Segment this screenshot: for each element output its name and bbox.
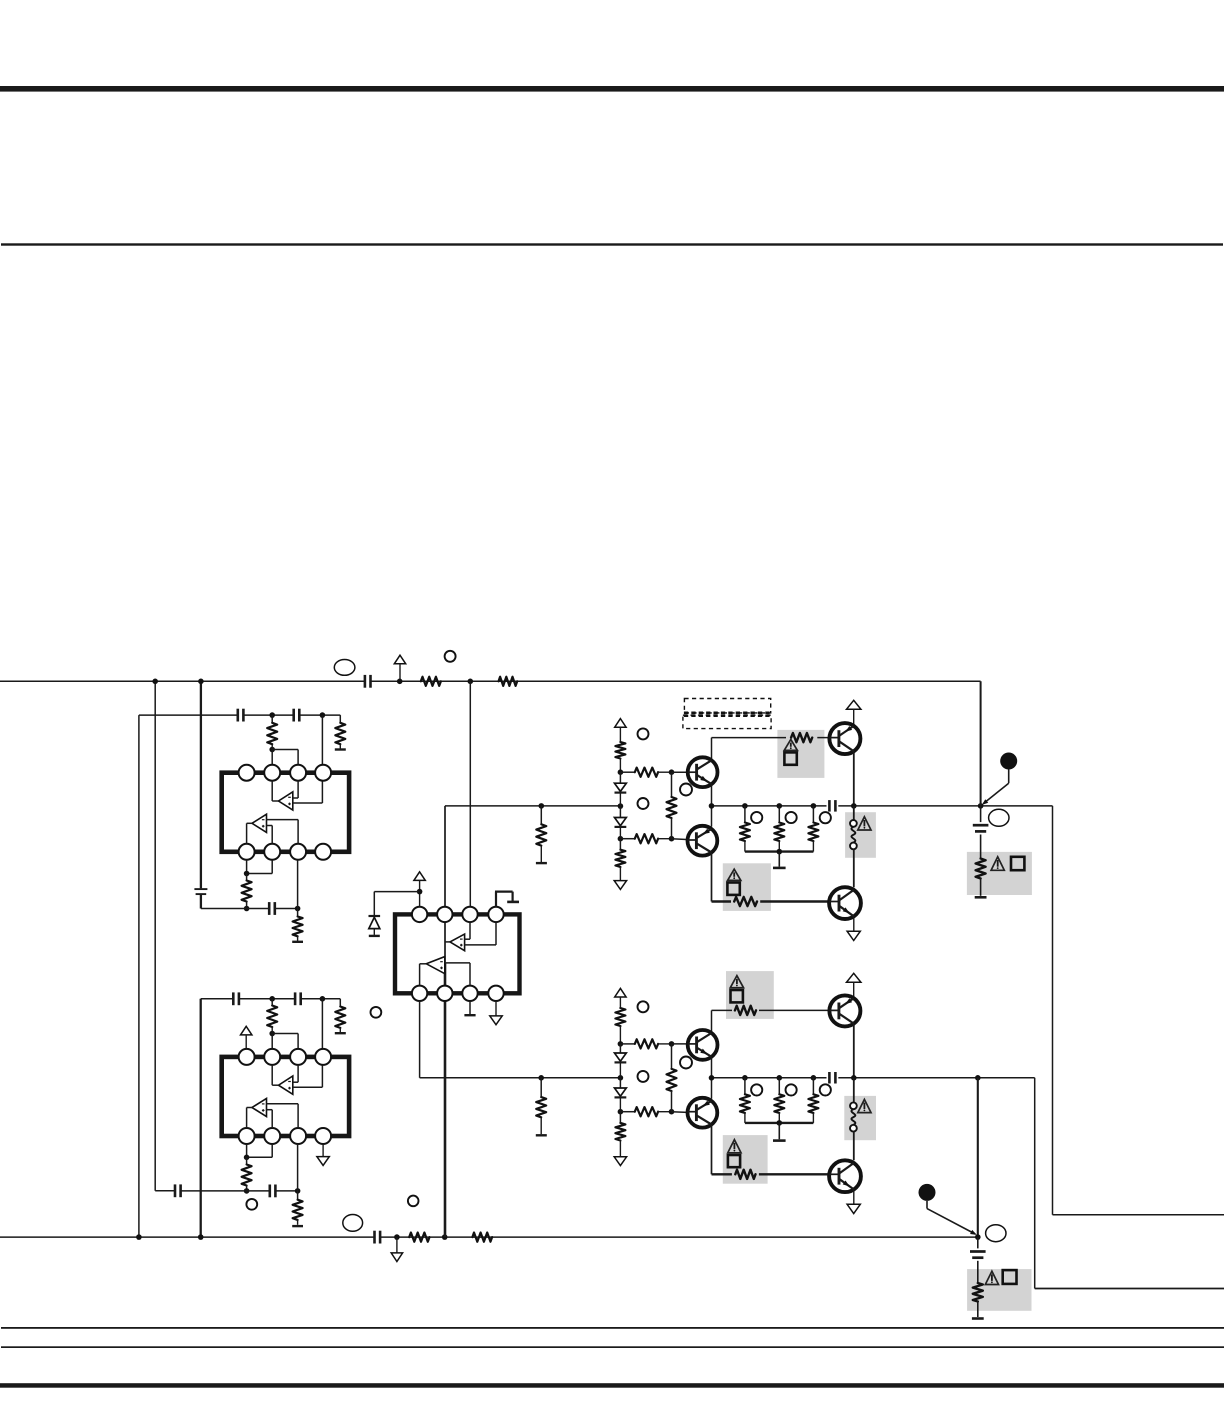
- speaker dot (bottom ch): [919, 1184, 936, 1201]
- ground arrow (bias, bottom ch): [614, 1141, 626, 1166]
- node dot T3: [618, 827, 624, 841]
- fuse F2 contact b: [850, 1125, 857, 1132]
- transistor Q8 (power lower): [829, 1160, 861, 1192]
- resistor R5 (IC1 rail drop): [267, 715, 277, 744]
- terminal bar R10: [335, 1032, 346, 1034]
- wire IC1-c to pin3: [272, 750, 298, 765]
- node dot V8: [777, 1075, 783, 1081]
- node dot V6: [709, 1075, 715, 1081]
- wire IC2-c to pin3: [272, 1034, 298, 1049]
- wire U1 pin1b-pin2b link: [247, 860, 273, 874]
- wire U2 pin1b-pin2b link: [247, 1144, 273, 1157]
- highlight box fuse F2 (bottom channel): [844, 1096, 876, 1140]
- test point circle TP15: [786, 1084, 797, 1095]
- wire U3 pin3b stub: [469, 1001, 471, 1014]
- wire feed to U3 pin3 (x=470): [469, 681, 471, 906]
- node dot IC1-b: [320, 712, 326, 718]
- power symbol +B (top): [394, 655, 405, 681]
- square mark (output top): [1011, 857, 1024, 870]
- node dot T12: [978, 803, 984, 809]
- page top rule (thick): [0, 86, 1224, 92]
- test point circle TP2: [408, 1196, 419, 1207]
- resistor R32 (Q8 base, in box): [735, 1170, 755, 1179]
- resistor R1 (top rail): [421, 677, 441, 686]
- ground stub (bottom rail): [391, 1237, 402, 1261]
- diode D5: [615, 1088, 627, 1097]
- IC U3 pin circles: [412, 907, 504, 1001]
- square mark (output bottom): [1003, 1270, 1017, 1284]
- wire fuse to Q4: [853, 849, 855, 887]
- highlight box fuse F1 (top channel): [845, 812, 876, 858]
- speaker dot (top ch): [1000, 753, 1017, 770]
- warning mark (output top): [991, 857, 1004, 871]
- resistor R26 (bias top): [615, 1008, 625, 1044]
- capacitor C5 (IC1 rail): [294, 709, 300, 722]
- highlight box output R (top channel): [967, 852, 1032, 895]
- wire U3b tip to pin1b: [420, 964, 427, 986]
- wire T5 to Q2 base: [672, 839, 697, 840]
- wire node to fuse (bottom): [853, 1078, 855, 1103]
- highlight box R-base lower (bottom channel): [723, 1135, 768, 1184]
- wire center bus (x=445): [444, 806, 446, 1237]
- node dot B1: [394, 1234, 400, 1240]
- dashed connector outline A: [684, 699, 770, 713]
- transistor Q3 (power upper): [829, 723, 860, 754]
- resistor R33 (bank): [740, 1078, 750, 1123]
- terminal bar D1: [369, 935, 380, 937]
- node dot T9: [811, 803, 817, 809]
- wire U1a tip to pin2: [272, 780, 278, 801]
- resistor R19 (Q3 base, in box): [791, 733, 812, 742]
- resistor R13 (mid): [536, 806, 546, 862]
- wire fuse to Q8: [853, 1132, 855, 1161]
- op-amp U2b: [252, 1098, 267, 1116]
- capacitor C3 (electrolytic on bus 3): [194, 889, 207, 894]
- highlight box output R (bottom channel): [967, 1269, 1031, 1311]
- resistor R14 (bias top): [615, 742, 625, 772]
- wire U1b base link to pin2b: [267, 826, 273, 844]
- terminal bar R6: [335, 748, 346, 750]
- wire U3a tip: [445, 941, 450, 943]
- wire U2a in- from pin3: [293, 1065, 298, 1083]
- wire Q7 emitter to node: [853, 1024, 855, 1078]
- node dot U2-d: [244, 1155, 250, 1161]
- node dot U5b: [669, 1109, 675, 1115]
- highlight box R-base upper (top channel): [777, 730, 824, 778]
- dashed connector outline B: [683, 715, 771, 728]
- node dot B2: [442, 1234, 448, 1240]
- wire U1a in- from pin3: [293, 780, 298, 798]
- diode D2: [615, 783, 627, 792]
- node dot U4b: [669, 1041, 675, 1047]
- test point circle TP11: [638, 1001, 649, 1012]
- resistor R3 (bottom rail): [409, 1233, 429, 1242]
- wire Q3 emitter to node: [853, 751, 855, 806]
- test point circle TP8: [751, 812, 762, 823]
- ground arrow (U2 pin4b): [317, 1144, 329, 1165]
- wire IC1 pin4 feed: [321, 715, 323, 803]
- node dot T2: [618, 793, 624, 809]
- wire IC1 bottom rail: [201, 908, 298, 910]
- wire U1b tip to pin1b: [247, 823, 252, 844]
- wire IC2 pin4 feed: [321, 999, 323, 1087]
- resistor R17 (base row 2): [620, 834, 671, 843]
- ground stub (bank, bottom ch): [773, 1123, 786, 1141]
- op-amp IC U2 body: [222, 1057, 349, 1136]
- label ellipse (output bottom): [986, 1225, 1006, 1242]
- wire top input rail: [0, 680, 981, 682]
- terminal bar output bottom: [972, 1317, 984, 1320]
- transistor Q4 (power lower): [829, 887, 861, 919]
- wire left bus 2 (x=155): [154, 681, 156, 1191]
- wire Q5-Q6 link: [711, 1057, 713, 1099]
- capacitor C14 (IC2 bottom rail): [270, 1185, 276, 1198]
- op-amp U3a: [450, 934, 465, 951]
- wire output drop (bottom ch): [977, 1078, 979, 1237]
- capacitor C12 (mid rail): [829, 1072, 835, 1084]
- power symbol +B (bottom ch): [615, 988, 626, 1008]
- node dot bus3-top: [198, 679, 204, 685]
- speaker pointer (bottom ch): [927, 1201, 977, 1235]
- node dot IC1-c: [269, 744, 275, 752]
- test point circle TP10: [820, 812, 831, 823]
- page footer rule 2: [1, 1346, 1224, 1348]
- fuse F1 element: [851, 827, 855, 843]
- wire bus 3 to IC1 rail: [200, 894, 202, 908]
- capacitor C1 (input L): [365, 675, 371, 688]
- capacitor C6 (IC1 bottom rail): [269, 902, 275, 915]
- resistor R30 (inter-base): [667, 1044, 677, 1112]
- node dot U3-a: [417, 889, 423, 895]
- dashed connector heavy row: [684, 713, 771, 716]
- resistor R36 (output): [973, 1261, 983, 1317]
- fuse F1 contact a: [850, 820, 857, 827]
- wire U3a in- from pin3: [465, 922, 470, 939]
- resistor R24 (output): [976, 859, 986, 896]
- test point circle TP7: [680, 784, 692, 796]
- wire Q1-Q2 link: [711, 784, 713, 826]
- node dot A1: [397, 679, 403, 685]
- wire pin3b down: [297, 860, 299, 909]
- node dot IC2-c: [269, 1027, 275, 1036]
- node dot U2-e: [244, 1188, 250, 1194]
- resistor R12 (IC2 bottom): [293, 1191, 303, 1225]
- wire U2a out: [293, 1086, 323, 1088]
- node dot V9: [811, 1075, 817, 1081]
- wire left bus 3 lower: [200, 999, 202, 1237]
- wire U3 zener branch: [374, 892, 419, 916]
- capacitor C8 (IC2 rail): [295, 992, 301, 1005]
- resistor R28 (base row 1): [620, 1039, 671, 1048]
- test point circle TP6: [638, 798, 649, 809]
- node dot T11: [851, 803, 857, 809]
- wire IC2 bottom rail: [155, 1190, 297, 1192]
- terminal bar output top: [975, 896, 987, 899]
- wire IC1-c to pin2: [271, 750, 273, 765]
- test point circle TP3: [246, 1199, 257, 1210]
- resistor R35 (bank): [808, 1078, 818, 1123]
- label ellipse (output top): [989, 809, 1009, 826]
- capacitor C10 (mid rail): [829, 800, 835, 812]
- warning mark (box1): [784, 739, 797, 750]
- resistor R15 (bias bottom): [615, 839, 625, 867]
- square mark (box1): [784, 752, 796, 764]
- test point circle TP5: [638, 728, 649, 739]
- test point circle TP14: [751, 1084, 762, 1095]
- node dot M2: [538, 1075, 544, 1081]
- wire T1-T2: [619, 772, 621, 783]
- wire U1a out: [293, 802, 323, 804]
- resistor R16 (base row 1): [620, 768, 671, 777]
- node dot T5: [669, 836, 675, 842]
- fuse F1 contact b: [850, 843, 857, 850]
- wire output right (top ch): [1053, 806, 1224, 1215]
- node dot IC2-b: [320, 996, 326, 1002]
- node dot bus3-bottom: [198, 1234, 204, 1240]
- transistor Q7 (power upper): [829, 995, 860, 1026]
- wire output right (bottom ch): [1035, 1078, 1224, 1289]
- power symbol +B (top ch): [615, 719, 626, 742]
- resistor R9 (IC2 rail drop): [267, 999, 277, 1027]
- ground stub (bank): [773, 852, 786, 868]
- wire mid rail L (top ch): [445, 805, 620, 807]
- terminal bar R8: [292, 941, 303, 943]
- node dot T7: [742, 803, 748, 809]
- warning mark (fuse F2): [858, 1099, 871, 1112]
- node dot bus2-top: [152, 679, 158, 685]
- wire U2b out to pin3b: [267, 1104, 299, 1128]
- wire T4 to Q1 base: [672, 771, 697, 773]
- wire U3 pin4 stub: [495, 892, 513, 907]
- wire left bus 1 (x=139): [138, 715, 140, 1237]
- square mark (box4): [728, 1155, 740, 1167]
- node dot T1: [618, 769, 624, 775]
- capacitor C4 (IC1 rail): [238, 709, 244, 722]
- wire mid rail R (bottom ch): [712, 1077, 1035, 1079]
- op-amp U3b: [426, 957, 445, 974]
- terminal bar R13: [536, 862, 547, 864]
- speaker pointer (top ch): [982, 770, 1009, 806]
- wire Q2 base wire thick: [712, 900, 829, 902]
- transistor Q1 (driver upper): [688, 757, 718, 787]
- capacitor C13 (output, electrolytic): [970, 1237, 986, 1258]
- node dot bus1-bottom: [136, 1234, 142, 1240]
- terminal bar R25: [536, 1134, 547, 1136]
- zener diode D1: [369, 916, 381, 935]
- op-amp IC U3 body: [395, 914, 520, 993]
- highlight box R-base lower (top channel): [723, 863, 771, 911]
- resistor R11 (U2 fb): [242, 1157, 252, 1191]
- power symbol +B (Q7): [847, 973, 861, 997]
- node dot T6: [709, 803, 715, 809]
- wire bottom input rail: [0, 1236, 978, 1238]
- node dot U1-f: [295, 906, 301, 912]
- diode D3: [615, 818, 627, 827]
- wire T2-D3: [619, 806, 621, 817]
- capacitor C7 (IC2 rail): [233, 992, 239, 1005]
- wire U2b base link to pin2b: [267, 1110, 273, 1128]
- node dot U1-d: [244, 871, 250, 877]
- test point circle TP4: [371, 1007, 382, 1018]
- test point circle TP12: [638, 1071, 649, 1082]
- power symbol +B (IC2): [241, 1026, 252, 1049]
- IC U1 pin circles: [239, 765, 332, 860]
- wire left bus 3 upper (x=201): [200, 681, 202, 888]
- wire mid rail R (top ch): [712, 805, 1053, 807]
- wire bank bottom bar: [745, 850, 814, 852]
- node dot U1-e: [244, 906, 250, 912]
- wire U2b-D5: [619, 1078, 621, 1088]
- wire Q1 collector rail: [712, 738, 830, 761]
- wire U2b tip to pin1b: [247, 1108, 252, 1129]
- node dot U1b: [618, 1041, 624, 1047]
- fuse F2 contact a: [850, 1102, 857, 1109]
- warning mark (fuse F1): [858, 817, 871, 830]
- node dot A2: [468, 679, 474, 685]
- transistor Q2 (driver lower): [688, 826, 718, 856]
- wire top rail drop: [980, 681, 982, 806]
- resistor R34 (bank): [774, 1078, 784, 1123]
- transistor Q5 (driver upper): [688, 1030, 718, 1060]
- wire U2a tip to pin2: [272, 1065, 278, 1086]
- power symbol +B (U3): [414, 872, 425, 907]
- IC U2 pin circles: [239, 1049, 332, 1144]
- resistor R21 (bank): [740, 806, 750, 852]
- wire U1b-D4: [619, 1044, 621, 1053]
- wire U3a out: [465, 922, 496, 945]
- resistor R29 (base row 2): [620, 1107, 671, 1116]
- test point circle TP1: [445, 651, 456, 662]
- wire mid rail L (bottom ch): [420, 1001, 621, 1078]
- page header rule (thin): [1, 243, 1223, 245]
- node dot T10: [777, 849, 783, 855]
- capacitor C11 (output, electrolytic): [973, 806, 989, 859]
- wire node to fuse: [853, 806, 855, 820]
- node dot U2-f: [295, 1188, 301, 1194]
- test point circle TP13: [680, 1057, 692, 1069]
- ground arrow (Q8): [847, 1189, 860, 1213]
- square mark (box3): [731, 990, 743, 1002]
- wire Q2 emitter down: [711, 853, 713, 902]
- node dot IC2-a: [269, 996, 275, 1002]
- node dot IC1-a: [269, 712, 275, 718]
- wire IC2-c to pin2: [271, 1034, 273, 1049]
- page footer rule 1: [1, 1327, 1224, 1329]
- wire pin3b down (U2): [297, 1144, 299, 1191]
- op-amp U1b: [252, 814, 267, 832]
- power symbol +B (Q3): [847, 700, 861, 725]
- ground arrow (U3 pin4b): [490, 1001, 502, 1025]
- resistor R18 (inter-base): [667, 772, 677, 839]
- resistor R27 (bias bottom): [615, 1112, 625, 1141]
- resistor R8 (IC1 bottom): [293, 909, 303, 942]
- highlight box R-base upper (bottom channel): [726, 971, 774, 1019]
- node dot T4: [669, 769, 675, 775]
- node dot V11: [851, 1075, 857, 1081]
- capacitor C2 (input R): [375, 1231, 381, 1244]
- resistor R4 (bottom rail): [472, 1233, 492, 1242]
- resistor R31 (Q7 base, in box): [735, 1006, 756, 1015]
- resistor R10 (IC2 rail end): [335, 999, 345, 1033]
- square mark (box2): [727, 883, 739, 895]
- test point circle TP16: [820, 1084, 831, 1095]
- node dot V13: [975, 1234, 981, 1240]
- wire IC1 top rail: [139, 714, 340, 716]
- node dot U3b: [618, 1098, 624, 1115]
- warning mark (box2): [728, 869, 741, 880]
- fuse F2 element: [851, 1109, 855, 1125]
- resistor R23 (bank): [808, 806, 818, 852]
- terminal bar U3 stub: [507, 901, 519, 904]
- node dot U2b: [618, 1063, 624, 1081]
- wire U3b out to pin3b: [445, 963, 470, 986]
- node dot V12: [975, 1075, 981, 1081]
- resistor R20 (Q4 base, in box): [734, 897, 757, 906]
- op-amp IC U1 body: [222, 773, 349, 852]
- warning mark (output bottom): [985, 1271, 998, 1284]
- wire Q5 collector rail: [712, 1010, 830, 1031]
- node dot V10: [777, 1120, 783, 1126]
- op-amp U1a: [279, 792, 293, 810]
- ground arrow (bias, top ch): [614, 867, 626, 890]
- terminal bar U3 pin3b: [464, 1014, 475, 1016]
- wire U5b to Q6 base: [672, 1112, 697, 1113]
- transistor Q6 (driver lower): [688, 1098, 718, 1128]
- page bottom rule (thick): [0, 1383, 1224, 1388]
- wire U1b out to pin3b: [267, 820, 299, 844]
- node dot V7: [742, 1075, 748, 1081]
- warning mark (box3): [730, 976, 743, 988]
- resistor R2 (top rail): [499, 677, 518, 686]
- resistor R6 (IC1 rail end): [335, 715, 345, 749]
- resistor R22 (bank): [774, 806, 784, 852]
- node dot T8: [777, 803, 783, 809]
- wire U4b to Q5 base: [672, 1043, 697, 1045]
- node dot M1: [539, 803, 545, 809]
- resistor R7 (U1 fb): [242, 874, 252, 909]
- label ellipse (input L): [334, 660, 355, 676]
- label ellipse (input R): [343, 1215, 363, 1232]
- wire Q6 emitter down: [711, 1125, 713, 1174]
- wire IC2 top rail: [201, 998, 341, 1000]
- warning mark (box4): [728, 1140, 741, 1153]
- resistor R25 (mid): [536, 1078, 546, 1134]
- terminal bar R12: [292, 1225, 303, 1227]
- wire bank bottom bar (bottom ch): [745, 1122, 814, 1124]
- test point circle TP9: [786, 812, 797, 823]
- ground arrow (Q4): [847, 916, 860, 940]
- diode D4: [615, 1053, 627, 1062]
- capacitor C9 (IC2 bottom rail): [175, 1184, 181, 1197]
- op-amp U2a: [279, 1076, 293, 1094]
- wire Q6 base wire thick: [712, 1173, 829, 1175]
